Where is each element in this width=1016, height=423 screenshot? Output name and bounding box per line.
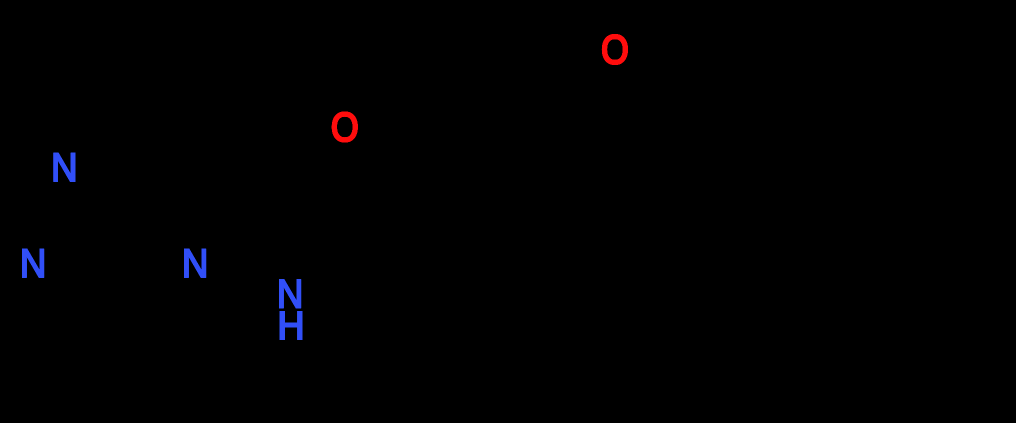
svg-text:O: O	[331, 105, 359, 151]
bond N4-N(H) hydrazide N-N	[212, 268, 272, 287]
svg-text:O: O	[601, 27, 629, 73]
bond K-V1 ring	[575, 86, 673, 138]
bond V1-V2 ring	[673, 50, 755, 86]
svg-text:N: N	[20, 241, 46, 286]
bond C3-N4	[118, 274, 182, 328]
bond C6-C7	[370, 222, 442, 293]
bond N1=N2 double (triazole left edge)	[38, 184, 71, 250]
bond V2-V3 ring	[755, 50, 845, 97]
bond C5=N1 double (triazole top edge)	[81, 166, 158, 178]
bond C6=O1 carbonyl double	[347, 146, 376, 212]
svg-text:H: H	[277, 304, 304, 348]
bond V7-V8 ring	[640, 185, 712, 243]
bond V8-K ring closure	[575, 138, 640, 185]
bond C8-K ketone alpha	[515, 138, 575, 232]
bond V4-V5 ring	[858, 278, 1008, 420]
bond N2-C3	[45, 274, 107, 328]
bond V2-B1 bridge	[753, 50, 758, 152]
bond N(H)-C6 amide	[305, 230, 362, 278]
bond K=O2 ketone double	[570, 68, 613, 134]
bond N4-C5	[167, 175, 190, 244]
bond V3-V4 ring	[845, 97, 1008, 278]
bond V5-V6 ring	[748, 332, 858, 420]
svg-text:N: N	[182, 241, 208, 286]
bond B1-V7 bridge	[712, 152, 755, 243]
svg-text:N: N	[51, 145, 77, 190]
bond C5-CH3 (substituent as drawn)	[76, 20, 200, 148]
bond V6-V7 ring	[712, 243, 748, 332]
bond C7-C8	[442, 232, 515, 293]
